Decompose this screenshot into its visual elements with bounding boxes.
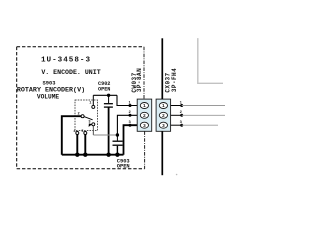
junction bus / C903 bbox=[115, 153, 119, 157]
wire: C902 bottom to ground bus bbox=[108, 108, 110, 155]
capacitor C903 bbox=[116, 135, 118, 141]
adjacent unit outline (light grey corner) bbox=[198, 38, 223, 83]
wire: common terminal to ground bus (thick L) bbox=[62, 116, 81, 155]
svg-text:3P-FH4: 3P-FH4 bbox=[171, 68, 178, 92]
junction bus / encoder terminal 1 bbox=[75, 153, 79, 157]
connector CN1 body bbox=[137, 99, 152, 131]
connector CN1 pin 2 bbox=[140, 112, 148, 118]
wire: terminal B down and right to C903 node bbox=[92, 126, 94, 135]
rotary encoder S903 dashed body bbox=[75, 100, 98, 131]
unit boundary box bottom border bbox=[17, 168, 145, 170]
wire: cable below CN2 bbox=[161, 131, 163, 175]
svg-text:OPEN: OPEN bbox=[117, 164, 130, 170]
wire: top node horizontal (encoder A / C902 / pin1) bbox=[93, 94, 117, 96]
svg-text:V. ENCODE. UNIT: V. ENCODE. UNIT bbox=[41, 69, 100, 76]
wire: CN2 pin3 out right bbox=[171, 124, 182, 126]
S903 wiper arrow bbox=[89, 123, 93, 127]
node C903 top junction bbox=[116, 133, 119, 136]
S903 bottom terminal circles bbox=[76, 132, 79, 135]
connector CN2 pin 3 bbox=[159, 122, 167, 128]
junction on pin1 wire bbox=[129, 104, 132, 107]
svg-text:2: 2 bbox=[162, 113, 165, 119]
svg-text:3: 3 bbox=[162, 123, 165, 129]
connector CN1 pin 1 bbox=[140, 103, 148, 109]
svg-text:OPEN: OPEN bbox=[98, 87, 110, 93]
svg-text:1: 1 bbox=[89, 102, 91, 106]
S903 wiper bbox=[84, 117, 93, 120]
svg-text:1U-3458-3: 1U-3458-3 bbox=[41, 57, 91, 65]
wire: bottom terminal 2 to ground bus bbox=[84, 135, 86, 155]
wire: C903 bottom to ground bus bbox=[116, 146, 118, 155]
ground bus wire bbox=[62, 154, 124, 156]
wire: terminal A up to node bbox=[92, 95, 94, 105]
connector CN2 pin 1 bbox=[159, 103, 167, 109]
capacitor C902 bbox=[108, 95, 110, 103]
connector CN1 pin 3 bbox=[140, 122, 148, 128]
stray mark below CN2 cable bbox=[176, 174, 178, 176]
svg-text:VOLUME: VOLUME bbox=[37, 94, 60, 101]
S903 terminal B circle bbox=[92, 123, 95, 126]
unit boundary box left border bbox=[16, 47, 18, 169]
junction bus / encoder terminal 2 bbox=[83, 153, 87, 157]
wire: CN2 pin2 out right bbox=[171, 114, 182, 116]
unit boundary dash-dot line below connector CN1 bbox=[144, 131, 146, 168]
wire: corner down to pin1 row bbox=[117, 95, 137, 105]
svg-text:1: 1 bbox=[162, 103, 165, 109]
svg-text:3P-8AN: 3P-8AN bbox=[136, 68, 143, 92]
wire: CN2 pin1 out right bbox=[171, 105, 182, 107]
connector CN2 body bbox=[156, 99, 171, 131]
S903 terminal A (top contact) circle bbox=[92, 105, 95, 108]
unit boundary box 1U-3458-3 top border bbox=[17, 46, 144, 48]
connector CN2 pin 2 bbox=[159, 112, 167, 118]
svg-text:3: 3 bbox=[88, 121, 90, 125]
svg-text:2: 2 bbox=[143, 113, 146, 119]
wire: cable above CN2 bbox=[161, 38, 163, 99]
junction bus / C902 bbox=[106, 153, 110, 157]
junction on pin2 wire bbox=[129, 114, 132, 117]
svg-text:1: 1 bbox=[143, 103, 146, 109]
wire: pin3 row to ground bus (thick) bbox=[124, 125, 138, 155]
svg-text:3: 3 bbox=[143, 123, 146, 129]
junction C902 top node bbox=[107, 94, 110, 97]
wire: pin2 row to C903 node bbox=[117, 115, 137, 135]
svg-text:5: 5 bbox=[81, 130, 83, 134]
S903 common terminal circle bbox=[81, 115, 84, 118]
junction on pin3 wire bbox=[129, 124, 132, 127]
unit boundary dash-dot line entering connector CN1 top bbox=[143, 47, 145, 99]
wire: bottom terminal 1 to ground bus bbox=[76, 135, 78, 155]
